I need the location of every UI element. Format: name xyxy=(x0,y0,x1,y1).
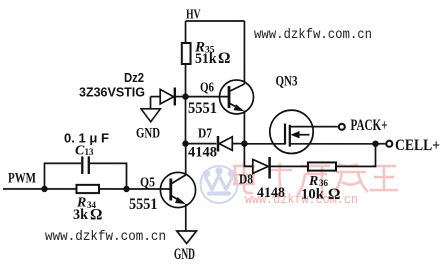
transistor Q6 xyxy=(186,80,254,114)
node dot CELL line xyxy=(372,141,378,147)
svg-text:GND: GND xyxy=(136,125,160,141)
diode D8 xyxy=(253,157,308,179)
wire R36 to CELL node xyxy=(336,144,376,167)
svg-text:51k: 51k xyxy=(195,51,217,67)
svg-text:3k: 3k xyxy=(73,207,89,223)
wire to CELL terminal xyxy=(375,143,386,145)
wire zener anode to ground xyxy=(150,97,152,109)
node dot D7 right / gate xyxy=(241,140,247,146)
svg-text:5551: 5551 xyxy=(129,196,158,213)
watermark logo W circle xyxy=(200,166,237,203)
svg-text:PACK+: PACK+ xyxy=(350,117,387,134)
mosfet QN3 xyxy=(244,110,372,153)
svg-text:Ω: Ω xyxy=(328,186,340,203)
ground (Q5) xyxy=(177,231,197,244)
capacitor C13 branch xyxy=(44,156,126,189)
resistor R35 xyxy=(182,43,191,64)
svg-text:Ω: Ω xyxy=(218,50,230,67)
svg-text:C: C xyxy=(75,143,85,158)
wire R35 to zener node xyxy=(185,64,187,96)
svg-text:GND: GND xyxy=(174,246,195,263)
svg-text:5551: 5551 xyxy=(188,100,217,117)
svg-text:Q6: Q6 xyxy=(200,80,214,95)
svg-text:D8: D8 xyxy=(239,173,253,188)
wire Q5 collector up to D7 node xyxy=(185,144,187,175)
node dot PWM/C13 left xyxy=(41,186,47,192)
node CELL+ terminal xyxy=(386,141,392,147)
wire gate node down to D8 xyxy=(244,144,252,167)
svg-text:D7: D7 xyxy=(198,126,212,141)
svg-text:Q5: Q5 xyxy=(140,175,155,190)
wire R34 to Q5 base xyxy=(99,188,171,190)
zener diode Dz2 xyxy=(151,87,186,105)
svg-text:HV: HV xyxy=(186,7,201,22)
svg-text:Dz2: Dz2 xyxy=(124,70,144,85)
transistor Q5 xyxy=(160,172,195,207)
resistor R36 xyxy=(308,162,336,170)
svg-text:10k: 10k xyxy=(301,187,325,203)
svg-text:4148: 4148 xyxy=(257,185,285,201)
ground (zener) xyxy=(141,109,160,122)
diode D7 xyxy=(185,136,244,152)
wire HV top loop xyxy=(186,21,245,84)
watermark pink hanzi xyxy=(233,161,398,196)
wire Q6 emitter down to D7 node xyxy=(243,111,245,144)
node PACK+ terminal xyxy=(339,124,345,130)
node dot C13 right xyxy=(123,186,129,192)
svg-text:www.dzkfw.com.cn: www.dzkfw.com.cn xyxy=(254,27,372,43)
wire node to D7 node xyxy=(184,97,186,144)
svg-text:CELL+: CELL+ xyxy=(395,137,440,154)
wire PWM input xyxy=(3,188,76,190)
node dot zener/Q6 base xyxy=(182,93,188,99)
svg-text:Ω: Ω xyxy=(90,206,102,223)
svg-text:4148: 4148 xyxy=(188,144,217,160)
svg-text:www.dzkfw.com.cn: www.dzkfw.com.cn xyxy=(45,229,166,245)
svg-text:PWM: PWM xyxy=(8,170,36,186)
svg-text:13: 13 xyxy=(84,147,94,157)
svg-text:0. 1 μ F: 0. 1 μ F xyxy=(64,131,109,145)
node dot D7 left xyxy=(182,140,188,146)
wire Q5 emitter to ground xyxy=(185,204,187,231)
svg-text:3Z36VSTIG: 3Z36VSTIG xyxy=(79,84,145,99)
resistor R34 xyxy=(76,185,99,193)
svg-text:QN3: QN3 xyxy=(276,74,298,90)
